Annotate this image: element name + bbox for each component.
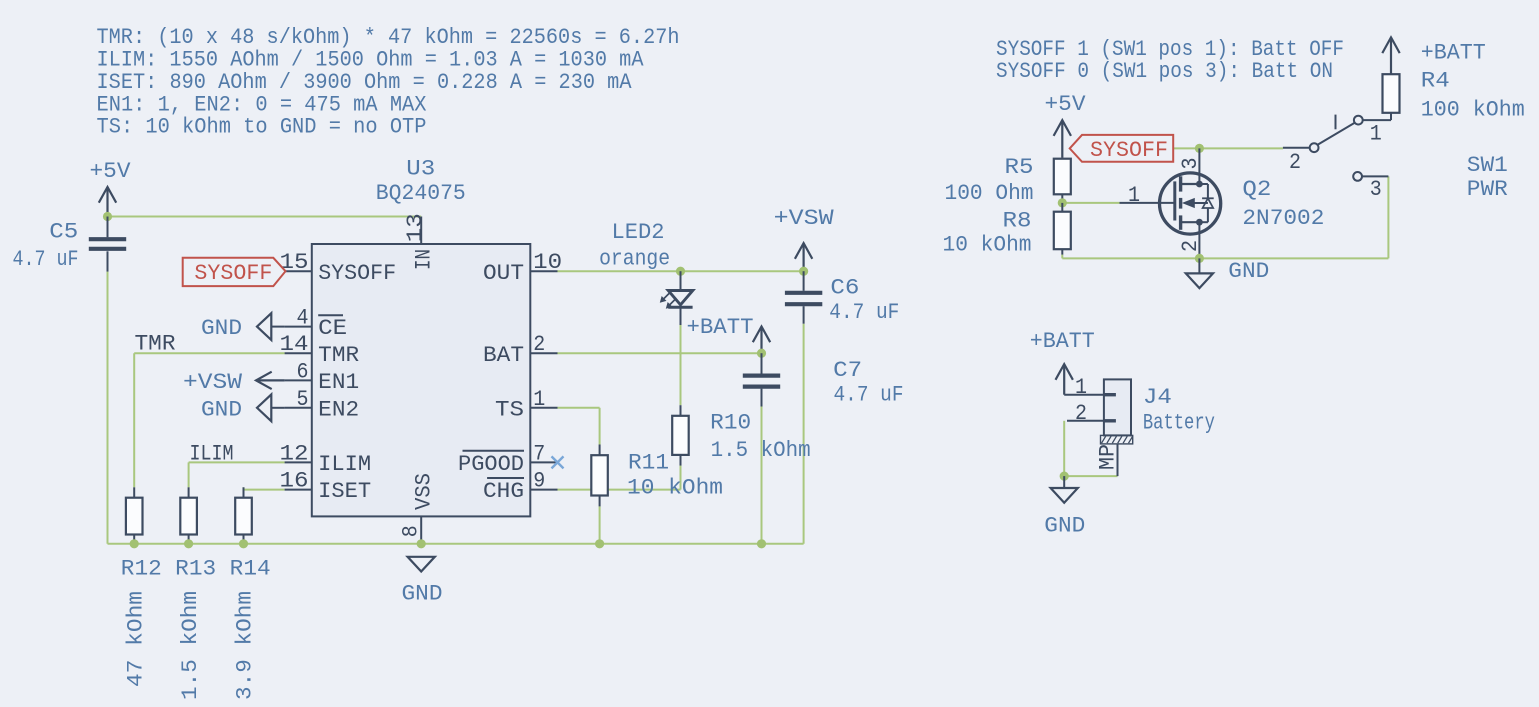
svg-text:ILIM: ILIM xyxy=(190,442,234,467)
svg-text:GND: GND xyxy=(201,316,242,341)
svg-text:PWR: PWR xyxy=(1467,177,1508,202)
svg-text:R8: R8 xyxy=(1003,209,1032,234)
svg-text:+BATT: +BATT xyxy=(687,315,754,340)
svg-text:+VSW: +VSW xyxy=(183,370,243,395)
svg-text:47 kOhm: 47 kOhm xyxy=(124,591,149,687)
svg-text:12: 12 xyxy=(280,441,309,466)
svg-text:GND: GND xyxy=(1044,513,1085,538)
svg-text:TMR: (10 x 48 s/kOhm) * 47 kOh: TMR: (10 x 48 s/kOhm) * 47 kOhm = 22560s… xyxy=(97,25,680,50)
svg-text:4.7 uF: 4.7 uF xyxy=(829,300,899,325)
svg-text:ILIM: ILIM xyxy=(318,452,371,477)
svg-text:GND: GND xyxy=(402,581,443,606)
svg-text:GND: GND xyxy=(1228,259,1269,284)
svg-text:MP: MP xyxy=(1096,444,1121,470)
svg-text:1: 1 xyxy=(1075,375,1087,400)
svg-text:CE: CE xyxy=(318,316,347,341)
svg-text:5: 5 xyxy=(297,387,309,412)
svg-text:C5: C5 xyxy=(49,220,78,245)
svg-text:10 kOhm: 10 kOhm xyxy=(627,476,723,501)
svg-text:CHG: CHG xyxy=(483,479,524,504)
svg-text:R5: R5 xyxy=(1005,155,1034,180)
svg-text:2: 2 xyxy=(1178,240,1203,252)
svg-text:TMR: TMR xyxy=(318,343,359,368)
svg-text:U3: U3 xyxy=(406,157,435,182)
svg-text:4.7 uF: 4.7 uF xyxy=(834,382,904,407)
svg-text:+5V: +5V xyxy=(1045,92,1087,117)
svg-text:13: 13 xyxy=(403,213,428,242)
svg-text:1: 1 xyxy=(1128,183,1140,208)
svg-text:BQ24075: BQ24075 xyxy=(376,181,466,206)
svg-text:R14: R14 xyxy=(230,557,271,582)
svg-text:4.7 uF: 4.7 uF xyxy=(13,247,79,272)
svg-text:orange: orange xyxy=(599,247,670,272)
svg-text:9: 9 xyxy=(533,469,545,494)
svg-text:TS: TS xyxy=(495,397,524,422)
svg-text:1: 1 xyxy=(533,387,545,412)
svg-text:8: 8 xyxy=(399,525,424,537)
svg-text:+BATT: +BATT xyxy=(1030,329,1095,354)
svg-text:EN1: EN1 xyxy=(318,370,359,395)
svg-text:1.5 kOhm: 1.5 kOhm xyxy=(178,591,203,700)
svg-text:R13: R13 xyxy=(175,557,216,582)
svg-text:R4: R4 xyxy=(1421,68,1450,93)
svg-text:EN1: 1, EN2: 0 = 475 mA MAX: EN1: 1, EN2: 0 = 475 mA MAX xyxy=(97,92,427,117)
svg-text:16: 16 xyxy=(280,469,309,494)
svg-text:BAT: BAT xyxy=(483,343,524,368)
svg-text:10: 10 xyxy=(533,250,562,275)
svg-text:Battery: Battery xyxy=(1143,411,1215,436)
svg-text:4: 4 xyxy=(297,306,309,331)
svg-text:+5V: +5V xyxy=(90,159,132,184)
svg-text:EN2: EN2 xyxy=(318,397,359,422)
svg-text:6: 6 xyxy=(297,359,309,384)
svg-text:R10: R10 xyxy=(710,411,751,436)
svg-text:R11: R11 xyxy=(628,451,669,476)
svg-text:Q2: Q2 xyxy=(1242,177,1271,202)
svg-text:3: 3 xyxy=(1370,177,1382,202)
svg-text:100 Ohm: 100 Ohm xyxy=(945,181,1034,206)
svg-text:1: 1 xyxy=(1370,121,1382,146)
svg-text:TMR: TMR xyxy=(135,331,176,356)
svg-text:LED2: LED2 xyxy=(612,220,665,245)
svg-text:2: 2 xyxy=(1289,150,1301,175)
svg-text:ISET: ISET xyxy=(318,479,371,504)
svg-text:C7: C7 xyxy=(833,358,862,383)
svg-text:1.5 kOhm: 1.5 kOhm xyxy=(711,438,811,463)
svg-text:10 kOhm: 10 kOhm xyxy=(943,233,1032,258)
svg-text:2: 2 xyxy=(533,332,545,357)
svg-text:3.9 kOhm: 3.9 kOhm xyxy=(232,591,257,700)
svg-text:100 kOhm: 100 kOhm xyxy=(1421,98,1525,123)
svg-text:SYSOFF: SYSOFF xyxy=(194,261,272,286)
svg-text:PGOOD: PGOOD xyxy=(458,452,524,477)
svg-text:TS: 10 kOhm to GND = no OTP: TS: 10 kOhm to GND = no OTP xyxy=(97,115,427,140)
svg-text:SYSOFF: SYSOFF xyxy=(318,261,396,286)
svg-text:IN: IN xyxy=(412,249,437,270)
svg-text:+VSW: +VSW xyxy=(774,206,835,231)
svg-text:J4: J4 xyxy=(1143,385,1172,410)
svg-text:3: 3 xyxy=(1178,158,1203,170)
svg-text:GND: GND xyxy=(201,397,242,422)
svg-text:2: 2 xyxy=(1075,401,1087,426)
svg-text:14: 14 xyxy=(280,332,309,357)
svg-text:+BATT: +BATT xyxy=(1421,41,1486,66)
svg-text:SW1: SW1 xyxy=(1467,153,1508,178)
svg-text:2N7002: 2N7002 xyxy=(1242,206,1324,231)
svg-text:ISET: 890 AOhm / 3900 Ohm = 0.: ISET: 890 AOhm / 3900 Ohm = 0.228 A = 23… xyxy=(97,70,633,95)
svg-text:SYSOFF 0 (SW1 pos 3): Batt ON: SYSOFF 0 (SW1 pos 3): Batt ON xyxy=(996,59,1333,84)
svg-text:SYSOFF: SYSOFF xyxy=(1090,138,1168,163)
svg-text:OUT: OUT xyxy=(483,261,524,286)
svg-text:7: 7 xyxy=(533,441,545,466)
svg-text:VSS: VSS xyxy=(412,473,437,510)
svg-text:R12: R12 xyxy=(121,557,162,582)
svg-text:ILIM: 1550 AOhm / 1500 Ohm = 1: ILIM: 1550 AOhm / 1500 Ohm = 1.03 A = 10… xyxy=(97,48,645,73)
svg-text:15: 15 xyxy=(280,250,309,275)
svg-text:C6: C6 xyxy=(830,276,859,301)
